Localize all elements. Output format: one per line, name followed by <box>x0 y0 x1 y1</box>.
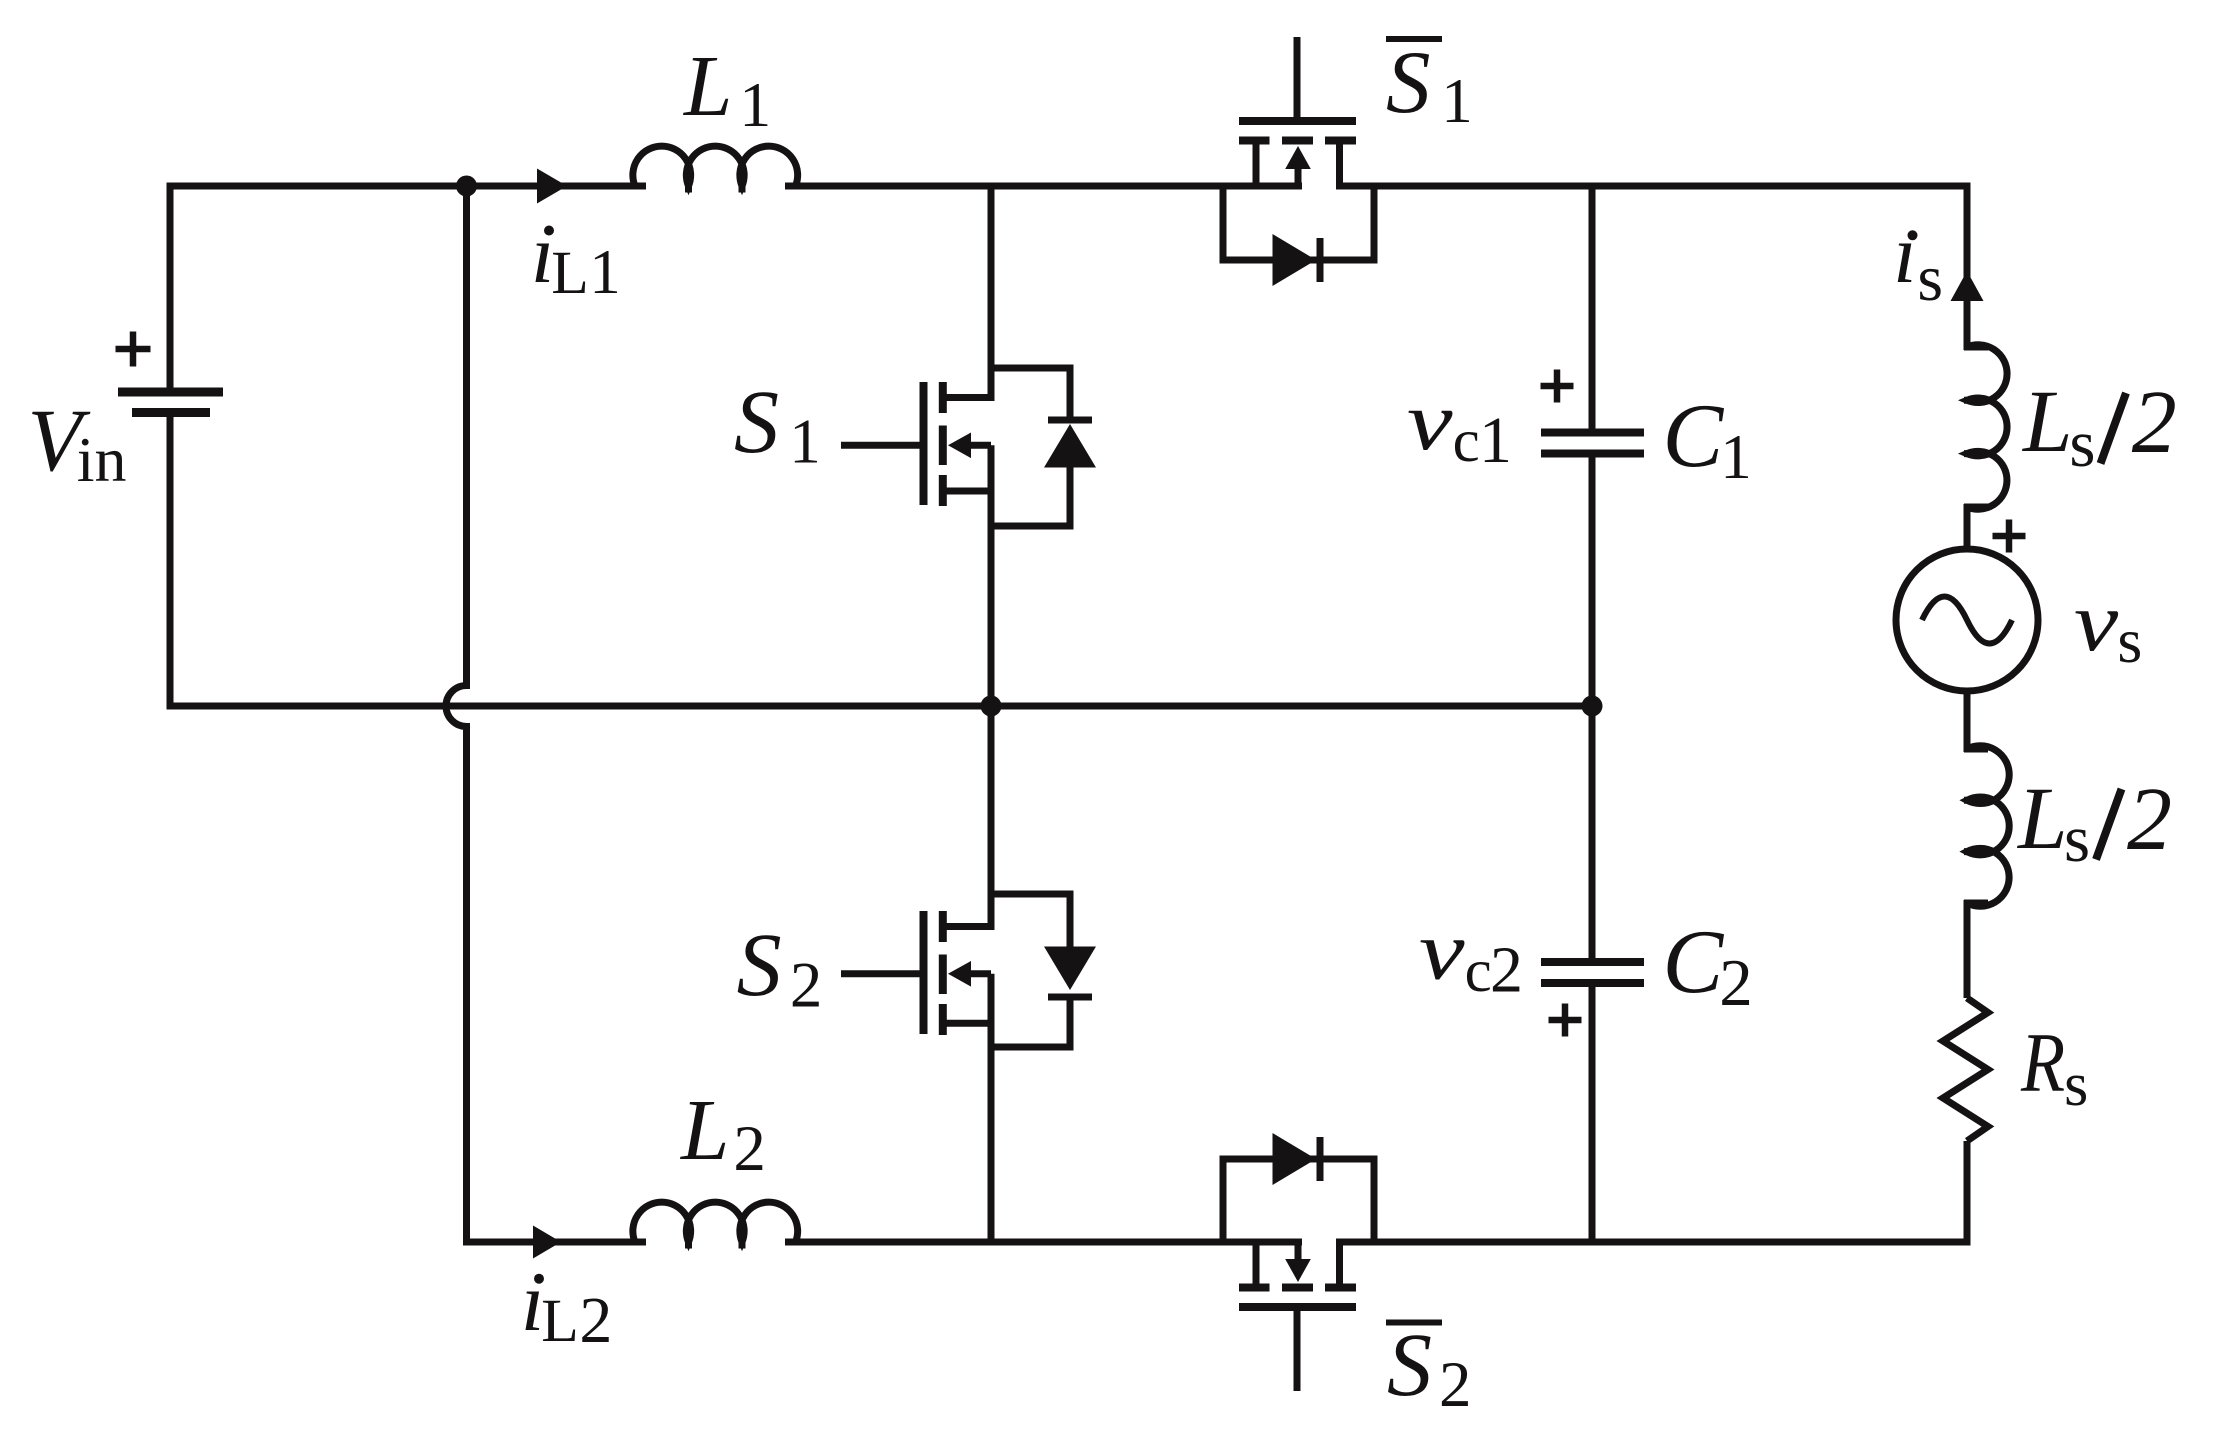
arrow is <box>1951 271 1984 301</box>
svg-text:L: L <box>2021 373 2073 471</box>
svg-text:S: S <box>1387 1316 1432 1415</box>
capacitor C2 plates <box>1541 962 1644 983</box>
wire source + main lower vertical <box>943 974 991 1242</box>
wire battery bottom lead + middle rail <box>170 416 1592 706</box>
label vc2 <box>1419 905 1465 997</box>
svg-text:S: S <box>734 373 779 472</box>
battery plus sign <box>116 332 151 367</box>
S2 body diode cathode bar <box>1048 994 1092 1001</box>
S2 body arrow head <box>948 961 971 987</box>
wire diode bottom link <box>991 464 1070 526</box>
wire gate lead <box>841 970 920 977</box>
C1 plus sign <box>1541 370 1574 403</box>
svg-text:2: 2 <box>790 950 823 1022</box>
wire body arrow line <box>968 442 991 449</box>
capacitor C2 branch <box>1589 706 1596 1242</box>
svg-text:C: C <box>1663 911 1725 1012</box>
vs plus sign <box>1993 520 2026 553</box>
svg-text:ı: ı <box>1893 208 1916 301</box>
inductor Ls/2 upper cusp dashes <box>1964 347 1988 507</box>
inductor L1 <box>633 146 798 186</box>
source vs circle <box>1896 549 2038 691</box>
capacitor C1 branch <box>1589 186 1596 706</box>
wire between Ls/2 lower and Rs <box>1964 900 1971 998</box>
wire bottom lead C2 <box>1589 987 1596 1242</box>
wire top rail left segment + battery top lead <box>170 186 1302 389</box>
wire diode loop <box>1223 1159 1374 1242</box>
S1bar diode triangle (pointing right) <box>1273 234 1317 286</box>
channel contact bars S1bar <box>1239 137 1356 145</box>
svg-text:s: s <box>1917 242 1943 315</box>
node A junction dot <box>456 176 477 197</box>
svg-text:L: L <box>682 37 732 134</box>
S2bar body arrow head (down) <box>1285 1259 1311 1282</box>
label S1bar overbar <box>1386 36 1442 42</box>
inductor L2 wire stubs and cusp ticks <box>635 1239 796 1249</box>
inductor Ls/2 upper <box>1967 345 2007 509</box>
svg-text:s: s <box>2069 407 2095 481</box>
svg-text:c: c <box>1453 408 1480 475</box>
svg-text:2: 2 <box>1719 946 1753 1020</box>
svg-text:1: 1 <box>789 407 821 477</box>
inductor L2 <box>633 1202 798 1242</box>
gate bar S2bar <box>1239 1303 1356 1311</box>
S1 body arrow head <box>948 433 971 459</box>
svg-text:in: in <box>77 424 127 495</box>
wire diode loop <box>1223 186 1374 260</box>
svg-text:L: L <box>541 1287 579 1355</box>
svg-text:R: R <box>2020 1017 2065 1111</box>
wire bottom rail right segment + right branch up to Rs <box>1336 1141 1967 1242</box>
junction dot middle rail / S branch <box>981 696 1002 717</box>
S1 body diode triangle <box>1044 424 1096 468</box>
inductor Ls/2 lower <box>1967 746 2009 906</box>
source vs sine wave <box>1922 597 2012 644</box>
svg-text:1: 1 <box>1720 422 1752 492</box>
svg-text:c: c <box>1465 938 1492 1005</box>
arrow iL2 <box>533 1226 561 1259</box>
svg-text:2: 2 <box>733 1113 766 1185</box>
svg-text:v: v <box>2074 576 2119 670</box>
wire vertical from node A with hop over middle rail, then bottom rail left segment <box>446 186 1302 1242</box>
svg-text:L: L <box>551 239 589 307</box>
junction dot middle rail / C branch <box>1582 696 1603 717</box>
S2bar diode cathode bar <box>1317 1137 1324 1181</box>
label vc1 <box>1407 375 1453 467</box>
channel contact bars S2 <box>939 911 947 1035</box>
wire top rail right segment + right branch down to Ls/2 upper <box>1336 186 1967 350</box>
wire drain from top rail <box>943 186 991 398</box>
svg-text:2: 2 <box>2132 373 2177 472</box>
inductor Ls/2 lower cusp dashes <box>1964 749 1988 903</box>
svg-text:1: 1 <box>1441 66 1473 136</box>
wire gate lead <box>841 442 920 449</box>
svg-text:C: C <box>1663 385 1725 486</box>
svg-text:L: L <box>2016 770 2068 868</box>
S2 body diode triangle (pointing down) <box>1044 947 1096 991</box>
svg-text:v: v <box>1407 375 1453 467</box>
wire body arrow line <box>1295 1242 1302 1262</box>
transistor S2bar (horizontal MOSFET on bottom rail, mirrored) <box>1223 1159 1374 1391</box>
transistor S1 (MOSFET with body diode) <box>841 186 1070 706</box>
svg-text:s: s <box>2117 605 2142 676</box>
S1bar body arrow head (up) <box>1285 146 1311 169</box>
svg-text:S: S <box>737 916 782 1015</box>
capacitor C1 plates <box>1541 433 1644 454</box>
svg-text:s: s <box>2064 1051 2088 1119</box>
transistor S1bar (horizontal MOSFET on top rail) <box>1223 37 1374 260</box>
S2bar diode triangle (pointing right) <box>1273 1133 1317 1185</box>
S1bar diode cathode bar <box>1317 238 1324 282</box>
svg-text:1: 1 <box>1479 404 1512 477</box>
wire source + main lower vertical <box>943 445 991 706</box>
wire right contact lead <box>1336 1242 1343 1284</box>
wire diode top link <box>991 368 1070 420</box>
svg-text:2: 2 <box>1439 1349 1472 1421</box>
wire body arrow line <box>1295 166 1302 186</box>
battery Vin <box>118 392 223 413</box>
wire diode top link <box>991 894 1070 951</box>
svg-text:1: 1 <box>589 237 621 307</box>
wire gate vertical lead <box>1294 1311 1301 1391</box>
svg-text:s: s <box>2064 802 2090 876</box>
svg-text:1: 1 <box>739 69 771 140</box>
wire drain from middle rail <box>943 706 991 927</box>
channel contact bars S2bar <box>1239 1284 1356 1292</box>
svg-text:S: S <box>1386 34 1431 132</box>
wire body arrow line <box>968 970 991 977</box>
wire top lead C2 <box>1589 706 1596 958</box>
svg-text:2: 2 <box>2127 770 2172 869</box>
label S2bar overbar <box>1386 1320 1442 1326</box>
wire gate vertical lead <box>1294 37 1301 117</box>
inductor L1 wire stubs and cusp ticks <box>635 183 796 193</box>
wire bottom lead C1 <box>1589 458 1596 707</box>
wire right contact lead <box>1336 144 1343 186</box>
wire between Ls/2 upper and vs <box>1964 504 1971 549</box>
channel contact bars S1 <box>939 382 947 506</box>
resistor Rs <box>1943 998 1988 1141</box>
S1 body diode cathode bar <box>1048 417 1092 424</box>
label Rs <box>2020 1017 2065 1111</box>
svg-text:2: 2 <box>579 1284 612 1357</box>
gate bar S1bar <box>1239 117 1356 125</box>
gate bar S2 <box>920 911 928 1034</box>
wire top lead C1 <box>1589 186 1596 429</box>
wire diode bottom link <box>991 994 1070 1047</box>
svg-text:2: 2 <box>1490 934 1523 1007</box>
svg-text:L: L <box>679 1081 729 1178</box>
wire between vs and Ls/2 lower <box>1964 691 1971 752</box>
wire left contact lead <box>1253 144 1260 186</box>
gate bar S1 <box>920 382 928 505</box>
wire left contact lead <box>1253 1242 1260 1284</box>
svg-text:v: v <box>1419 905 1465 997</box>
arrow iL1 <box>537 169 567 204</box>
label vs <box>2074 576 2119 670</box>
C2 plus sign <box>1549 1004 1582 1037</box>
transistor S2 (MOSFET with body diode, diode flipped) <box>841 706 1070 1242</box>
